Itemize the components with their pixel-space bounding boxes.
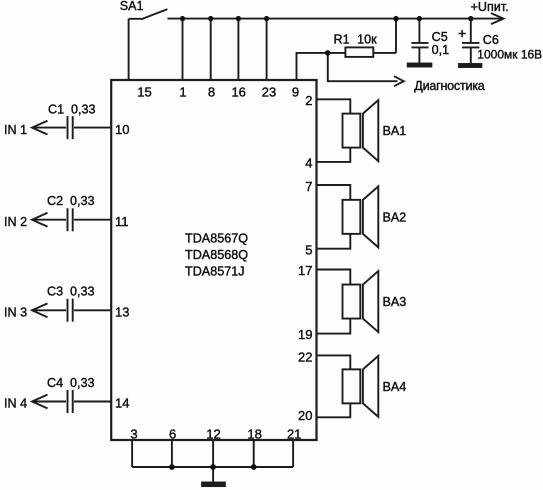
svg-text:21: 21 xyxy=(287,426,301,441)
svg-text:TDA8568Q: TDA8568Q xyxy=(185,248,248,262)
svg-text:1: 1 xyxy=(179,84,186,99)
svg-text:Диагностика: Диагностика xyxy=(414,79,485,93)
svg-text:5: 5 xyxy=(305,242,312,257)
svg-text:1000мк 16В: 1000мк 16В xyxy=(477,48,542,62)
svg-text:23: 23 xyxy=(262,84,276,99)
svg-text:0,1: 0,1 xyxy=(432,43,450,57)
svg-text:BA1: BA1 xyxy=(383,124,407,138)
svg-text:2: 2 xyxy=(305,93,312,108)
svg-text:11: 11 xyxy=(115,214,129,229)
svg-text:10к: 10к xyxy=(357,33,377,47)
svg-text:10: 10 xyxy=(115,122,129,137)
svg-text:BA3: BA3 xyxy=(383,295,407,309)
svg-text:C3: C3 xyxy=(47,284,63,298)
svg-text:13: 13 xyxy=(115,305,129,320)
svg-text:C2: C2 xyxy=(47,194,63,208)
svg-text:0,33: 0,33 xyxy=(70,194,95,208)
svg-text:12: 12 xyxy=(206,426,220,441)
svg-text:16: 16 xyxy=(231,84,245,99)
svg-text:3: 3 xyxy=(130,426,137,441)
svg-text:C1: C1 xyxy=(48,103,64,117)
svg-text:IN 2: IN 2 xyxy=(4,215,27,229)
svg-text:+Uпит.: +Uпит. xyxy=(471,0,509,14)
svg-text:0,33: 0,33 xyxy=(71,103,96,117)
svg-text:BA4: BA4 xyxy=(383,380,407,394)
svg-text:20: 20 xyxy=(298,408,312,423)
svg-text:C6: C6 xyxy=(483,33,499,47)
svg-text:15: 15 xyxy=(137,84,151,99)
svg-text:SA1: SA1 xyxy=(120,0,144,13)
svg-text:IN 1: IN 1 xyxy=(4,123,27,137)
svg-text:14: 14 xyxy=(115,396,129,411)
svg-text:0,33: 0,33 xyxy=(70,376,95,390)
svg-text:8: 8 xyxy=(208,84,215,99)
svg-text:4: 4 xyxy=(305,156,312,171)
svg-text:7: 7 xyxy=(305,179,312,194)
svg-text:0,33: 0,33 xyxy=(70,284,95,298)
svg-text:IN 3: IN 3 xyxy=(4,306,27,320)
svg-text:22: 22 xyxy=(298,349,312,364)
svg-text:C4: C4 xyxy=(47,376,63,390)
svg-text:TDA8567Q: TDA8567Q xyxy=(185,231,248,245)
svg-text:18: 18 xyxy=(247,426,261,441)
svg-text:TDA8571J: TDA8571J xyxy=(185,265,245,279)
svg-text:R1: R1 xyxy=(334,33,350,47)
svg-text:9: 9 xyxy=(292,84,299,99)
svg-text:IN 4: IN 4 xyxy=(4,397,27,411)
svg-text:17: 17 xyxy=(298,263,312,278)
svg-text:6: 6 xyxy=(169,426,176,441)
svg-text:19: 19 xyxy=(298,327,312,342)
svg-text:BA2: BA2 xyxy=(383,210,407,224)
